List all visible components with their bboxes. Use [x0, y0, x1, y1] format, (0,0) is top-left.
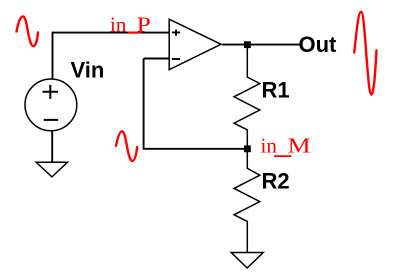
svg-text:Vin: Vin	[71, 58, 105, 83]
feedback sine squiggle (red)	[116, 131, 137, 161]
svg-text:P: P	[137, 12, 151, 36]
ground symbol under source	[36, 162, 67, 177]
voltage source minus sign	[44, 119, 58, 121]
sine source symbol (red squiggle, input)	[17, 17, 39, 47]
voltage source V1 circle	[25, 79, 77, 131]
resistor R2	[234, 149, 260, 253]
node in_M junction square	[244, 145, 251, 152]
voltage source plus sign	[43, 85, 59, 99]
svg-text:R2: R2	[262, 169, 290, 194]
op-amp U1 triangle	[169, 19, 221, 69]
wire Vin top to op-amp + input	[53, 33, 170, 79]
op-amp minus input sign	[172, 58, 180, 60]
svg-text:Out: Out	[299, 32, 338, 57]
wire op-amp minus input stub	[144, 58, 170, 60]
op-amp plus input sign	[172, 30, 180, 36]
svg-text:in: in	[110, 12, 127, 36]
output node junction square	[244, 41, 251, 48]
ground symbol under R2	[231, 253, 263, 269]
svg-text:M: M	[288, 133, 311, 157]
resistor R1	[234, 45, 260, 149]
svg-text:in: in	[261, 133, 278, 157]
output wire from op-amp to Out label	[222, 44, 300, 46]
output sine squiggle (red, large)	[354, 12, 376, 95]
wire source bottom to ground	[51, 132, 53, 163]
svg-text:R1: R1	[262, 78, 290, 103]
feedback wire down and right to node in_M	[144, 59, 248, 149]
